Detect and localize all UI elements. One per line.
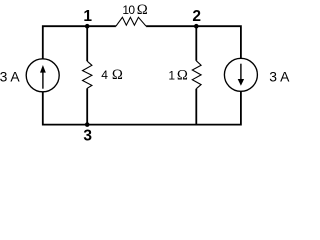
- current source I1 left circle: [26, 59, 59, 92]
- svg-text:4: 4: [101, 68, 108, 82]
- wire 4-ohm resistor bottom to node 3: [86, 88, 88, 124]
- wire node 2 to 1-ohm resistor top: [195, 26, 197, 61]
- svg-text:Ω: Ω: [177, 68, 188, 84]
- svg-text:2: 2: [192, 8, 201, 25]
- svg-text:Ω: Ω: [112, 67, 123, 83]
- wire top rail right segment: [146, 26, 241, 58]
- wire bottom rail with corners to current sources: [43, 91, 241, 124]
- svg-text:3: 3: [83, 128, 92, 145]
- node 2 junction dot: [194, 24, 199, 29]
- wire node 1 to 4-ohm resistor top: [86, 26, 88, 61]
- wire 1-ohm resistor bottom to bottom rail: [195, 89, 197, 125]
- svg-text:1: 1: [168, 69, 175, 83]
- resistor 4 ohm (vertical zigzag): [83, 61, 92, 88]
- current source I2 right circle: [224, 58, 257, 91]
- resistor 1 ohm (vertical zigzag): [192, 61, 201, 89]
- svg-text:3 A: 3 A: [269, 68, 290, 84]
- resistor 10 ohm (horizontal zigzag): [116, 17, 146, 26]
- svg-text:1: 1: [83, 8, 92, 25]
- node 3 junction dot: [85, 122, 90, 127]
- current source I2 arrow down: [238, 64, 244, 86]
- wire top rail left segment: [43, 26, 116, 59]
- svg-text:3 A: 3 A: [0, 68, 20, 84]
- current source I1 arrow up: [40, 65, 46, 89]
- svg-text:Ω: Ω: [137, 2, 148, 18]
- svg-text:10: 10: [122, 3, 135, 17]
- node 1 junction dot: [85, 24, 90, 29]
